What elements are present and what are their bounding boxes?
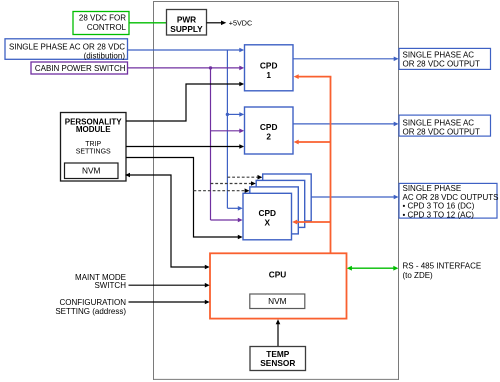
wire: purple elbow to CPD X: [211, 218, 243, 223]
svg-text:• CPD 3 TO 12 (AC): • CPD 3 TO 12 (AC): [403, 210, 475, 219]
svg-text:CPU: CPU: [269, 270, 287, 280]
svg-text:CONTROL: CONTROL: [87, 23, 127, 32]
wire: orange branch to CPD 2: [294, 140, 331, 145]
wire: trip settings to CPD X: [126, 158, 243, 240]
svg-text:SUPPLY: SUPPLY: [170, 24, 203, 34]
svg-text:• CPD 3 TO 16 (DC): • CPD 3 TO 16 (DC): [403, 202, 475, 211]
node CONFIGURATION SETTING label: [55, 298, 126, 316]
block CPD 2: [245, 107, 294, 154]
svg-text:CPD: CPD: [259, 208, 277, 218]
svg-text:PWR: PWR: [177, 14, 196, 24]
wire: CPD 1 output (blue): [293, 57, 399, 62]
svg-text:SWITCH: SWITCH: [94, 281, 126, 290]
wire: RS-485 interface (green, bidirectional): [347, 266, 399, 271]
svg-text:SINGLE PHASE AC: SINGLE PHASE AC: [403, 50, 475, 59]
wire: blue elbow to CPD X: [227, 206, 242, 211]
svg-text:RS - 485 INTERFACE: RS - 485 INTERFACE: [403, 262, 482, 271]
wire: single phase distribution bus to CPD 1 (blue): [128, 48, 245, 53]
wire: trip settings to CPD 2: [126, 144, 244, 149]
svg-text:1: 1: [266, 70, 271, 80]
node MAINT MODE SWITCH label: [75, 273, 126, 290]
wire: orange branch to CPD X: [292, 220, 330, 225]
svg-text:SINGLE PHASE AC: SINGLE PHASE AC: [403, 118, 475, 127]
svg-text:MODULE: MODULE: [76, 125, 111, 134]
wire: configuration setting to CPU: [129, 300, 210, 305]
output label: single phase output 1: [399, 48, 491, 69]
input label: CABIN POWER SWITCH: [31, 62, 128, 74]
wire: CPU command bus vertical (orange): [330, 77, 332, 253]
wire: CPD X stack output (blue): [311, 195, 398, 200]
svg-text:TRIP: TRIP: [85, 141, 101, 148]
wire: orange branch to CPD 1: [294, 74, 332, 79]
wire: PWR SUPPLY to +5VDC: [207, 21, 227, 26]
block TEMP SENSOR: [250, 347, 306, 371]
wire: temp sensor to CPU: [276, 319, 281, 346]
outer enclosure frame: [153, 1, 399, 380]
block CPD 1: [245, 45, 294, 91]
wire: purple vertical drop: [210, 68, 212, 220]
svg-text:NVM: NVM: [268, 296, 287, 306]
wire: maint mode switch to CPU: [129, 283, 210, 288]
wire: purple branch to CPD 2: [211, 129, 245, 134]
svg-text:SETTINGS: SETTINGS: [76, 149, 111, 156]
block hidden CPD (second of stack): [250, 187, 298, 234]
svg-text:NVM: NVM: [82, 166, 101, 176]
wire: trip settings to CPD 1: [126, 82, 244, 121]
input label: SINGLE PHASE AC OR 28 VDC (distibution): [5, 39, 128, 61]
output label: single phase output 2: [399, 115, 491, 136]
block hidden CPD (middle of stack): [256, 180, 305, 227]
svg-text:CONFIGURATION: CONFIGURATION: [59, 298, 126, 307]
wire: CPD 2 output (blue): [293, 122, 399, 127]
output label: single phase outputs CPD 3..X: [399, 183, 499, 219]
block hidden CPD (back of stack): [263, 174, 312, 221]
svg-text:(distibution): (distibution): [84, 52, 126, 61]
svg-text:SENSOR: SENSOR: [260, 358, 295, 368]
block PERSONALITY MODULE: [61, 113, 127, 182]
wire: 28VDC control to PWR SUPPLY (green): [129, 22, 167, 24]
wire: dashed feed to hidden CPD (purple bus): [211, 181, 256, 186]
svg-text:X: X: [265, 218, 271, 228]
wire: CPU to personality NVM (bidirectional): [125, 173, 210, 270]
svg-text:CABIN POWER SWITCH: CABIN POWER SWITCH: [35, 64, 126, 73]
block PWR SUPPLY: [167, 10, 207, 36]
block CPD X: [243, 193, 292, 240]
svg-text:2: 2: [266, 131, 271, 141]
block CPU: [210, 253, 347, 318]
junction: blue bus at CPD2 branch: [226, 113, 229, 116]
svg-text:OR 28 VDC OUTPUT: OR 28 VDC OUTPUT: [403, 127, 480, 136]
wire: dashed feed to hidden CPD (blue bus): [227, 175, 262, 180]
svg-text:SETTING (address): SETTING (address): [55, 307, 126, 316]
svg-text:28 VDC FOR: 28 VDC FOR: [79, 14, 126, 23]
svg-text:(to ZDE): (to ZDE): [403, 271, 434, 280]
wire: dashed feed to hidden CPD (trip settings): [194, 188, 250, 193]
wire: blue distribution vertical drop: [226, 50, 228, 208]
junction: purple bus branch: [209, 66, 212, 69]
block NVM (personality module): [65, 163, 119, 179]
wire: cabin power switch to CPD 1 (purple): [128, 66, 245, 71]
svg-text:OR 28 VDC OUTPUT: OR 28 VDC OUTPUT: [403, 60, 480, 69]
svg-text:CPD: CPD: [260, 60, 278, 70]
svg-text:AC OR 28 VDC OUTPUTS: AC OR 28 VDC OUTPUTS: [403, 193, 499, 202]
block NVM (CPU): [250, 294, 305, 309]
svg-text:+5VDC: +5VDC: [229, 18, 252, 27]
wire: blue branch to CPD 2: [227, 112, 244, 117]
svg-text:SINGLE PHASE: SINGLE PHASE: [403, 184, 462, 193]
svg-text:SINGLE PHASE AC OR 28 VDC: SINGLE PHASE AC OR 28 VDC: [9, 42, 125, 51]
node RS-485 interface label: [403, 262, 482, 280]
input label: 28 VDC FOR CONTROL: [73, 12, 129, 35]
